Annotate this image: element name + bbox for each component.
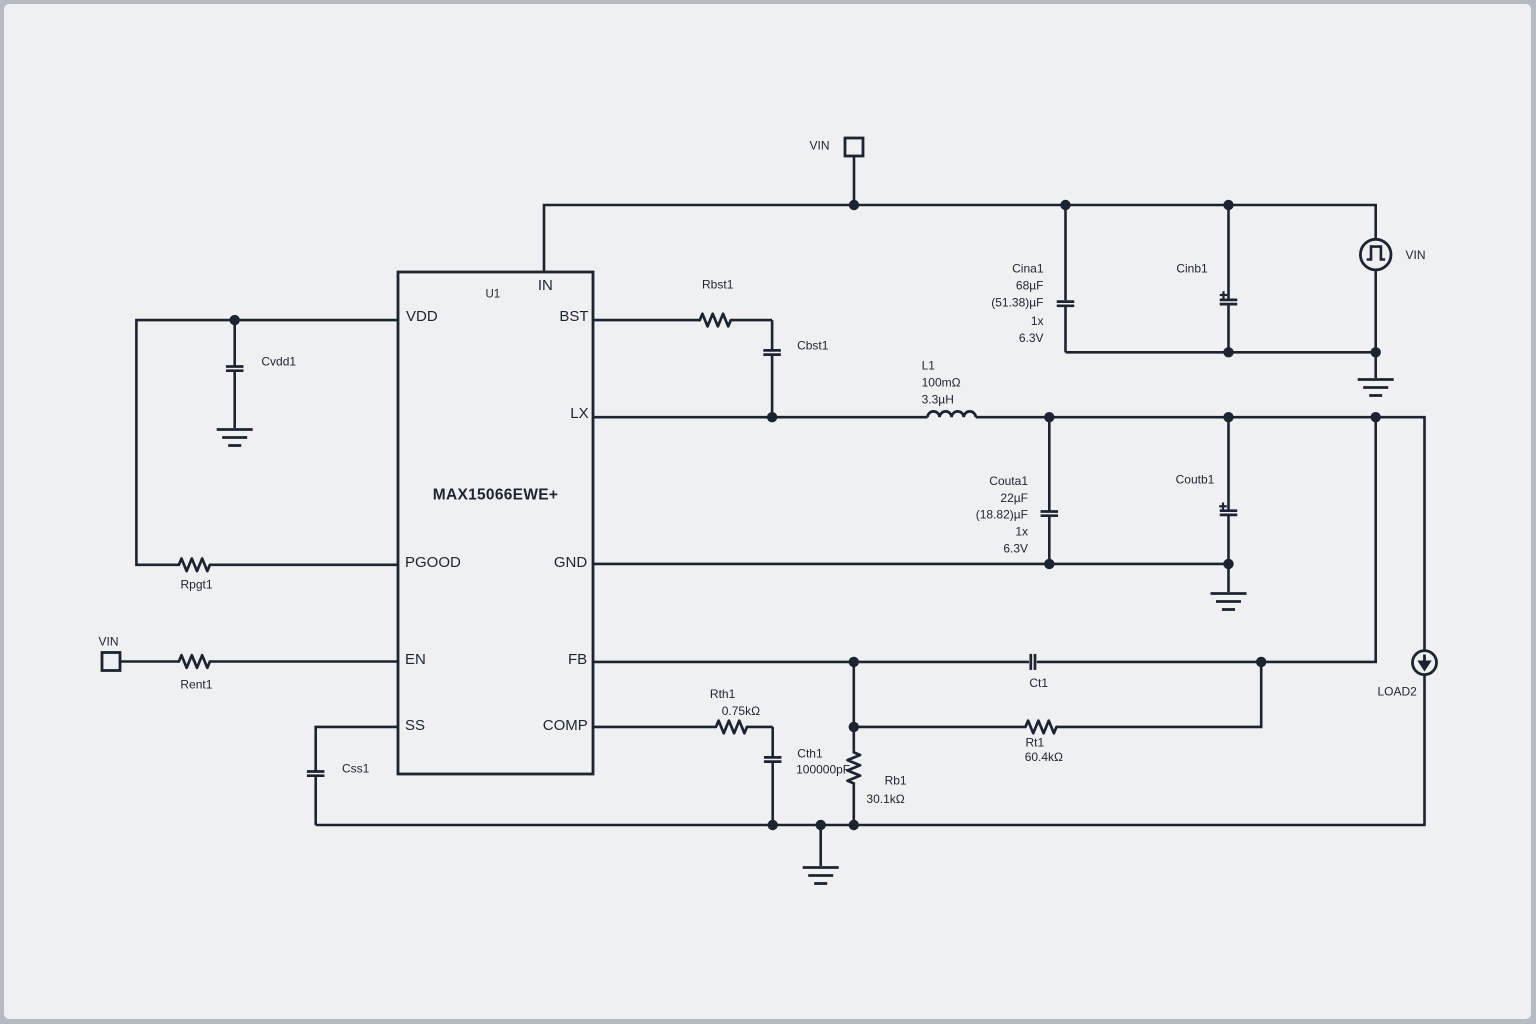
label Rth1 xyxy=(710,687,736,701)
svg-text:LOAD2: LOAD2 xyxy=(1378,685,1418,699)
pin SS xyxy=(405,717,425,734)
node bottom at Rb1 xyxy=(849,820,859,830)
svg-text:Rent1: Rent1 xyxy=(180,678,212,692)
wire VDD net xyxy=(136,320,398,565)
svg-text:Rbst1: Rbst1 xyxy=(702,277,734,291)
svg-text:Rth1: Rth1 xyxy=(710,687,736,701)
svg-text:Cth1: Cth1 xyxy=(797,746,823,760)
svg-text:BST: BST xyxy=(559,308,588,325)
svg-text:60.4kΩ: 60.4kΩ xyxy=(1025,750,1063,764)
wire VIN source to rail xyxy=(1374,270,1377,352)
svg-text:(51.38)µF: (51.38)µF xyxy=(991,296,1043,310)
source VIN (pulse) xyxy=(1360,239,1391,270)
label L1 xyxy=(922,359,961,407)
node LX at Couta1 xyxy=(1044,412,1054,422)
svg-text:1x: 1x xyxy=(1015,525,1028,539)
node GND at Couta1 xyxy=(1044,559,1054,569)
svg-text:22µF: 22µF xyxy=(1000,491,1028,505)
ground input xyxy=(1358,352,1394,395)
wire GND net xyxy=(593,563,1229,566)
svg-text:100mΩ: 100mΩ xyxy=(922,376,961,390)
resistor Rpgt1 xyxy=(179,559,210,572)
svg-text:Rt1: Rt1 xyxy=(1026,736,1045,750)
resistor Rb1 xyxy=(848,752,861,783)
svg-text:MAX15066EWE+: MAX15066EWE+ xyxy=(433,487,559,504)
node FB at Rb1 xyxy=(849,657,859,667)
svg-text:SS: SS xyxy=(405,717,425,734)
svg-text:(18.82)µF: (18.82)µF xyxy=(976,508,1028,522)
svg-text:FB: FB xyxy=(568,651,587,668)
capacitor Coutb1 (polarized) xyxy=(1219,417,1237,564)
label Ct1 xyxy=(1029,676,1048,690)
capacitor Cinb1 (polarized) xyxy=(1220,205,1238,352)
wire LOAD2 branch and bottom rail xyxy=(316,675,1425,825)
svg-text:VIN: VIN xyxy=(98,634,118,648)
node bottom at Cth1 xyxy=(768,820,778,830)
node input rail at Cinb1 xyxy=(1223,347,1233,357)
svg-text:Cina1: Cina1 xyxy=(1012,262,1044,276)
svg-text:68µF: 68µF xyxy=(1016,279,1044,293)
svg-text:Cinb1: Cinb1 xyxy=(1176,262,1208,276)
node Cbst1 at LX xyxy=(767,412,777,422)
svg-text:LX: LX xyxy=(570,405,588,422)
label Rt1 xyxy=(1026,736,1045,750)
svg-text:L1: L1 xyxy=(922,359,936,373)
pin VDD xyxy=(406,308,438,325)
node LX at Coutb1 xyxy=(1223,412,1233,422)
inductor L1 xyxy=(928,411,976,417)
wire SS net xyxy=(316,727,398,772)
node VIN rail at terminal xyxy=(849,200,859,210)
svg-text:Cbst1: Cbst1 xyxy=(797,338,829,352)
resistor Rth1 xyxy=(716,721,747,734)
svg-text:Rb1: Rb1 xyxy=(885,774,907,788)
value label Couta1 xyxy=(976,474,1029,556)
wire VIN top rail xyxy=(544,205,1376,272)
label MAX15066EWE+ xyxy=(433,487,559,504)
value Cth1 xyxy=(796,763,850,777)
pin COMP xyxy=(543,717,588,734)
node VIN rail at Cinb1 xyxy=(1223,200,1233,210)
label Cvdd1 xyxy=(261,355,296,369)
svg-text:6.3V: 6.3V xyxy=(1019,331,1044,345)
svg-text:VIN: VIN xyxy=(1406,248,1426,262)
capacitor Ct1 xyxy=(1031,654,1035,670)
ground output xyxy=(1211,564,1247,610)
terminal VIN EN xyxy=(102,653,120,671)
capacitor Cbst1 xyxy=(763,320,781,417)
wire input ground rail xyxy=(1066,351,1376,354)
node bottom at ground xyxy=(816,820,826,830)
current source LOAD2 xyxy=(1413,651,1437,675)
pin PGOOD xyxy=(405,554,461,571)
pin EN xyxy=(405,651,426,668)
label Cth1 xyxy=(797,746,823,760)
svg-text:Rpgt1: Rpgt1 xyxy=(180,578,212,592)
terminal VIN top xyxy=(845,138,863,205)
pin GND xyxy=(554,554,588,571)
capacitor Cvdd1 xyxy=(226,320,244,428)
resistor Rent1 xyxy=(179,655,210,668)
label Coutb1 xyxy=(1176,473,1215,487)
node VIN rail at Cina1 xyxy=(1060,200,1070,210)
op-amp U1 MAX15066EWE+ body xyxy=(398,272,593,774)
label Rent1 xyxy=(180,678,212,692)
label U1 xyxy=(485,289,500,301)
label Css1 xyxy=(342,762,370,776)
label LOAD2 xyxy=(1378,685,1418,699)
pin BST xyxy=(559,308,588,325)
svg-text:VIN: VIN xyxy=(809,139,829,153)
svg-text:U1: U1 xyxy=(485,289,500,301)
label Cinb1 xyxy=(1176,262,1208,276)
svg-text:COMP: COMP xyxy=(543,717,588,734)
wire Rt1 branch xyxy=(854,662,1261,727)
pin IN xyxy=(538,277,553,294)
svg-text:0.75kΩ: 0.75kΩ xyxy=(722,704,760,718)
wire EN net xyxy=(120,660,398,663)
node input rail at VIN source xyxy=(1371,347,1381,357)
svg-text:IN: IN xyxy=(538,277,553,294)
wire COMP net xyxy=(593,726,773,729)
svg-text:30.1kΩ: 30.1kΩ xyxy=(866,792,904,806)
label Rbst1 xyxy=(702,277,734,291)
capacitor Couta1 xyxy=(1041,417,1059,564)
svg-text:1x: 1x xyxy=(1031,314,1044,328)
value Rth1 xyxy=(722,704,760,718)
pin LX xyxy=(570,405,588,422)
node LX at FB riser xyxy=(1371,412,1381,422)
svg-text:VDD: VDD xyxy=(406,308,438,325)
resistor Rbst1 xyxy=(700,314,731,327)
capacitor Cth1 xyxy=(764,727,782,825)
ground bottom xyxy=(803,825,839,884)
wire Rb1 riser xyxy=(852,662,855,825)
svg-text:EN: EN xyxy=(405,651,426,668)
svg-text:100000pF: 100000pF xyxy=(796,763,850,777)
label Rb1 xyxy=(885,774,907,788)
svg-text:Cvdd1: Cvdd1 xyxy=(261,355,296,369)
node VDD at Cvdd1 xyxy=(230,315,240,325)
wire BST net xyxy=(593,319,772,322)
value Rb1 xyxy=(866,792,904,806)
label VIN source xyxy=(1406,248,1426,262)
node Rt1 at Rb1 riser xyxy=(849,722,859,732)
wire FB net xyxy=(593,417,1376,662)
svg-text:GND: GND xyxy=(554,554,588,571)
ground Cvdd1 xyxy=(217,430,253,446)
node GND at Coutb1 xyxy=(1223,559,1233,569)
label Rpgt1 xyxy=(180,578,212,592)
value Rt1 xyxy=(1025,750,1063,764)
svg-text:Css1: Css1 xyxy=(342,762,370,776)
label VIN EN terminal xyxy=(98,634,118,648)
svg-text:6.3V: 6.3V xyxy=(1003,542,1028,556)
svg-text:PGOOD: PGOOD xyxy=(405,554,461,571)
capacitor Cina1 xyxy=(1057,205,1075,352)
svg-text:Ct1: Ct1 xyxy=(1029,676,1048,690)
wire LX net xyxy=(593,417,1425,650)
capacitor Css1 xyxy=(307,772,325,826)
resistor Rt1 xyxy=(1026,721,1057,734)
svg-text:Couta1: Couta1 xyxy=(989,474,1028,488)
value label Cina1 xyxy=(991,262,1044,346)
label Cbst1 xyxy=(797,338,829,352)
svg-text:3.3µH: 3.3µH xyxy=(922,393,954,407)
pin FB xyxy=(568,651,587,668)
label VIN top terminal xyxy=(809,139,829,153)
svg-text:Coutb1: Coutb1 xyxy=(1176,473,1215,487)
node FB at Rt1 riser xyxy=(1256,657,1266,667)
